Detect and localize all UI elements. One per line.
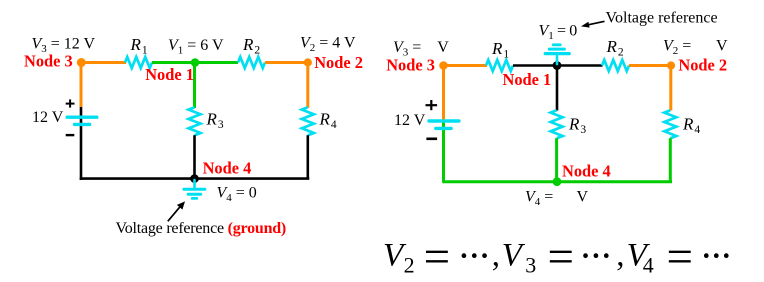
svg-text:V: V [437, 39, 449, 56]
svg-text:12 V: 12 V [394, 112, 426, 129]
svg-text:2: 2 [404, 252, 415, 277]
svg-text:,: , [492, 238, 500, 274]
wire node1 down to R3 (green) [193, 63, 196, 109]
node 1 dot [553, 61, 562, 70]
wire node3 to R1 (orange) [444, 64, 488, 67]
resistor R4 [664, 110, 676, 138]
svg-text:·: · [478, 233, 491, 278]
battery minus sign [66, 134, 75, 136]
svg-text:·: · [600, 233, 613, 278]
node 2 dot [304, 58, 312, 66]
battery minus sign [426, 138, 437, 141]
svg-text:Voltage reference: Voltage reference [606, 9, 718, 26]
svg-text:Node 2: Node 2 [678, 55, 727, 74]
wire node3 to R1 (orange) [81, 61, 126, 64]
resistor R3 [189, 107, 201, 135]
wire R2 to node2 (orange) [629, 64, 671, 67]
resistor R2 [602, 60, 629, 71]
wire node2 down to R4 (orange) [669, 66, 672, 111]
svg-text:V1 = 6 V: V1 = 6 V [168, 37, 224, 57]
wire R1 to R2 through node 1 (green) [152, 61, 238, 64]
svg-text:Voltage reference (ground): Voltage reference (ground) [116, 220, 287, 237]
svg-text:R1: R1 [130, 35, 148, 57]
node 4 dot [553, 177, 562, 186]
node 2 dot [667, 61, 675, 69]
svg-text:R2: R2 [242, 35, 260, 57]
ground at node 1 (voltage reference on top) [545, 45, 569, 64]
svg-text:=: = [667, 231, 694, 282]
wire R1 to R2 through node 1 (black) [513, 64, 603, 67]
svg-text:V4 = 0: V4 = 0 [217, 185, 257, 205]
svg-text:R3: R3 [568, 115, 586, 137]
svg-text:R1: R1 [491, 39, 509, 61]
svg-text:R3: R3 [206, 110, 224, 132]
svg-text:V: V [716, 38, 728, 55]
resistor R1 [125, 57, 152, 68]
svg-text:,: , [616, 238, 624, 274]
battery plus sign [426, 104, 438, 106]
wire node1 down to R3 (black) [556, 66, 559, 111]
math answer line V2 = ..., V3 = ..., V4 = ... [383, 231, 733, 282]
svg-text:Node 1: Node 1 [145, 65, 194, 84]
wire R2 to node2 (orange) [265, 61, 308, 64]
wire battery down to bottom (green) [442, 122, 445, 182]
wire node2 down to R4 (orange) [306, 63, 309, 109]
svg-text:R2: R2 [606, 37, 624, 59]
svg-text:Node 4: Node 4 [203, 158, 252, 177]
svg-text:V4 =: V4 = [525, 189, 553, 209]
resistor R4 [302, 107, 314, 135]
svg-text:Node 1: Node 1 [503, 70, 552, 89]
svg-text:Node 3: Node 3 [24, 51, 73, 70]
wire R3 to node4 (black) [193, 135, 196, 178]
node 1 dot [191, 58, 200, 67]
svg-text:·: · [720, 233, 733, 278]
wire R4 to bottom (green) [669, 138, 672, 182]
svg-text:3: 3 [525, 252, 536, 277]
svg-text:Node 4: Node 4 [562, 161, 611, 180]
wire node3 down to battery (orange) [442, 66, 445, 121]
svg-text:12 V: 12 V [32, 109, 64, 126]
svg-text:V: V [502, 238, 526, 274]
resistor R1 [486, 60, 513, 71]
svg-text:V: V [577, 189, 589, 206]
resistor R2 [238, 57, 265, 68]
wire R3 to node4 (green) [555, 138, 558, 182]
node 3 dot [77, 58, 86, 67]
svg-text:=: = [424, 231, 451, 282]
resistor R3 [551, 110, 563, 138]
ground at node 4 [184, 180, 205, 198]
bottom wire (green) [442, 180, 672, 183]
svg-text:Node 2: Node 2 [314, 53, 363, 72]
arrow to ground [168, 206, 181, 221]
wire R4 to bottom (black) [306, 135, 309, 178]
wire node3 down to battery (orange) [80, 63, 83, 108]
svg-text:R4: R4 [682, 115, 700, 137]
battery B1 plates [67, 115, 97, 118]
svg-text:4: 4 [643, 252, 654, 277]
svg-text:R4: R4 [319, 110, 337, 132]
bottom wire (black) [80, 177, 310, 180]
svg-text:V1 = 0: V1 = 0 [539, 23, 578, 43]
node 3 dot [439, 61, 448, 70]
svg-text:V2 = 4 V: V2 = 4 V [300, 35, 356, 55]
node 4 dot [190, 174, 199, 183]
svg-text:V2 =: V2 = [663, 38, 691, 58]
wire battery down to bottom (black) [80, 107, 83, 180]
battery plus sign [66, 103, 75, 105]
svg-text:Node 3: Node 3 [386, 56, 435, 75]
battery B2 plates [429, 119, 459, 122]
svg-text:=: = [548, 231, 575, 282]
arrow from Voltage reference to ground [587, 21, 605, 25]
